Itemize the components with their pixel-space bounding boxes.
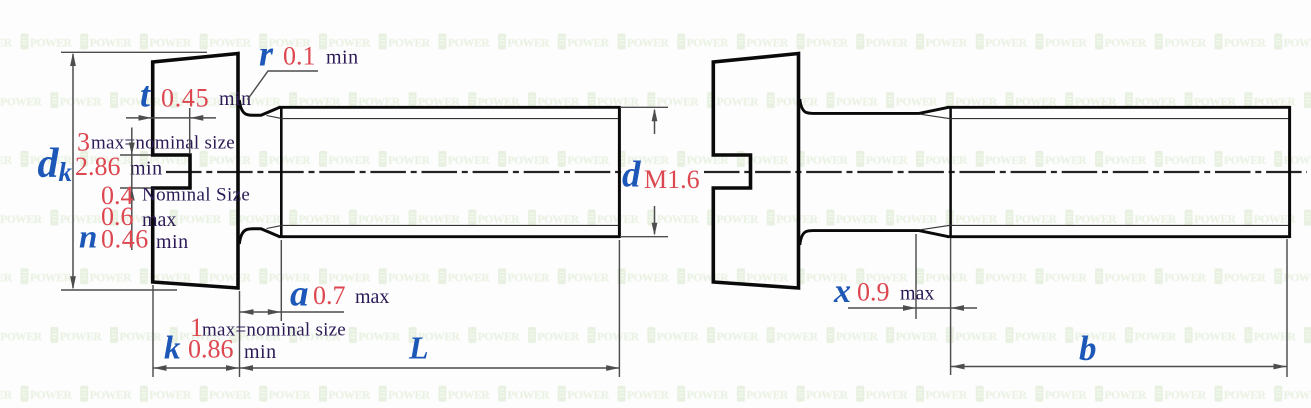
dimension k and L: dimension line with arrows bbox=[153, 365, 620, 371]
center axis line (left view) bbox=[166, 171, 627, 173]
dimension x: dimension line with outside arrows bbox=[848, 305, 977, 311]
dimension d_k: extension line top bbox=[61, 51, 207, 53]
dimension x: left extension line bbox=[915, 234, 917, 319]
svg-text:max: max bbox=[355, 286, 389, 308]
svg-text:M1.6: M1.6 bbox=[644, 165, 700, 194]
svg-text:0.46: 0.46 bbox=[101, 225, 149, 254]
dimension d_k: dimension line with arrows bbox=[70, 53, 76, 290]
dimension a: right extension line bbox=[280, 240, 282, 321]
thread major diameter top line (right view) bbox=[947, 106, 1290, 109]
dimension d: arrows bbox=[652, 108, 658, 235]
svg-text:min: min bbox=[219, 88, 252, 110]
thread runout diagonal bottom (left view) bbox=[267, 225, 283, 228]
shaft major diameter bottom line (left view) bbox=[279, 235, 621, 238]
dimension k: left extension line bbox=[152, 285, 154, 377]
dimension t: right extension line bbox=[189, 108, 191, 154]
svg-text:r: r bbox=[259, 34, 274, 74]
shaft major diameter top line (left view) bbox=[279, 106, 621, 109]
thread start vertical line (left view) bbox=[280, 107, 283, 238]
thread runout diagonal bottom (right view) bbox=[920, 225, 951, 230]
shaft end face (right view) bbox=[1288, 106, 1291, 238]
svg-text:min: min bbox=[156, 231, 189, 253]
center axis line (right view) bbox=[704, 171, 1307, 173]
svg-text:2.86: 2.86 bbox=[75, 152, 121, 181]
svg-text:0.1: 0.1 bbox=[283, 42, 316, 71]
thread minor diameter bottom line (left view) bbox=[282, 224, 619, 226]
thread runout diagonal top (left view) bbox=[267, 116, 283, 119]
top fillet under head (left view) bbox=[239, 100, 279, 115]
svg-text:a: a bbox=[290, 274, 309, 315]
dimension d: extension line top bbox=[620, 106, 668, 108]
head outline (left view) bbox=[153, 54, 238, 289]
svg-text:d: d bbox=[622, 155, 641, 196]
bottom fillet under head (right view) bbox=[800, 231, 948, 245]
svg-text:min: min bbox=[326, 47, 359, 69]
svg-text:min: min bbox=[244, 341, 277, 363]
svg-text:b: b bbox=[1079, 329, 1097, 368]
thread minor diameter bottom line (right view) bbox=[951, 224, 1289, 226]
top fillet under head (right view) bbox=[800, 99, 948, 113]
svg-text:max=nominal size: max=nominal size bbox=[91, 133, 235, 154]
thread major diameter bottom line (right view) bbox=[947, 235, 1290, 238]
dimension k and L: shared extension line bbox=[239, 291, 241, 377]
bottom fillet under head (left view) bbox=[239, 229, 279, 244]
svg-text:t: t bbox=[140, 75, 151, 115]
svg-text:L: L bbox=[408, 330, 429, 366]
dimension d: extension line bottom bbox=[620, 236, 668, 238]
svg-text:0.45: 0.45 bbox=[161, 84, 209, 113]
dimension n: slot bottom extension line bbox=[120, 187, 151, 189]
dimension x: right extension line (thread start) bbox=[950, 238, 952, 375]
leader line for r bbox=[248, 71, 319, 100]
dimension a: dimension line with arrows bbox=[240, 309, 344, 315]
svg-text:0.86: 0.86 bbox=[188, 335, 234, 364]
thread minor diameter top line (left view) bbox=[282, 118, 619, 120]
dimension b: dimension line with arrows bbox=[951, 364, 1287, 370]
dimension n: slot top extension line bbox=[120, 154, 151, 156]
svg-text:n: n bbox=[79, 220, 97, 256]
thread minor diameter top line (right view) bbox=[951, 118, 1289, 120]
svg-text:x: x bbox=[833, 273, 851, 310]
thread runout diagonal top (right view) bbox=[920, 114, 951, 119]
svg-text:0.7: 0.7 bbox=[313, 281, 346, 310]
thread start vertical line (right view) bbox=[949, 107, 952, 238]
svg-text:min: min bbox=[130, 158, 163, 180]
dimension L: right extension line bbox=[618, 240, 620, 377]
svg-text:0.9: 0.9 bbox=[857, 278, 890, 307]
dimension n: vertical dimension line with arrows bbox=[129, 128, 135, 251]
svg-text:max: max bbox=[900, 283, 934, 305]
dimension b: right extension line bbox=[1286, 239, 1288, 377]
svg-text:Nominal Size: Nominal Size bbox=[142, 185, 250, 206]
dimension d_k: extension line bottom bbox=[61, 289, 177, 291]
head outline (right view) bbox=[713, 54, 798, 289]
dimension t: dimension line with outside arrows bbox=[126, 115, 216, 121]
svg-text:k: k bbox=[164, 331, 181, 367]
shaft end face (left view) bbox=[618, 106, 621, 238]
